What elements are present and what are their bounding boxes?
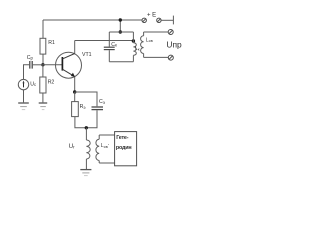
node bottom rail junction — [85, 126, 88, 129]
inductor Lsv2 heterodyne coupling coil — [96, 135, 99, 163]
wire node to R2 — [42, 65, 44, 77]
resistor Re — [72, 102, 79, 117]
wire tank bottom rail — [109, 61, 133, 63]
svg-text:Гете-: Гете- — [116, 135, 129, 141]
svg-text:Cэ: Cэ — [99, 99, 105, 105]
svg-text:Rэ: Rэ — [80, 104, 86, 110]
wire Re to bottom rail — [75, 117, 86, 128]
node base junction — [41, 63, 44, 66]
inductor Ug injection coil — [86, 128, 90, 169]
wire coil bottom to heterodyne box — [99, 162, 114, 164]
wire emitter branch to Ce — [75, 92, 97, 106]
svg-text:Cp: Cp — [27, 55, 34, 61]
capacitor Ck branch — [108, 32, 110, 47]
resistor R2 — [40, 77, 46, 93]
wire secondary bottom to terminal — [144, 56, 169, 58]
wire Ce to bottom rail — [86, 110, 97, 128]
svg-text:Cк: Cк — [111, 42, 117, 48]
wire +E rail — [43, 19, 142, 21]
inductor Lk tank coil — [133, 32, 136, 62]
wire emitter to Re branch — [74, 92, 76, 102]
svg-text:Lсв: Lсв — [146, 37, 153, 43]
svg-text:Lк: Lк — [135, 46, 140, 52]
terminal output top — [168, 30, 173, 35]
wire emitter — [74, 77, 76, 92]
terminal end bar — [172, 16, 174, 25]
wire secondary top to terminal — [144, 31, 169, 33]
svg-text:Uпр: Uпр — [166, 40, 182, 50]
node feed top — [119, 18, 122, 21]
wire coil top to heterodyne box — [99, 134, 114, 136]
wire R1 riser — [42, 20, 44, 38]
svg-text:Uc: Uc — [30, 81, 36, 87]
capacitor Ce — [92, 107, 104, 110]
wire +E feed drop — [119, 20, 121, 32]
wire collector riser — [74, 41, 76, 54]
wire Uc to ground — [23, 90, 25, 103]
terminal output bottom — [168, 55, 173, 60]
svg-text:Uг: Uг — [69, 144, 75, 150]
resistor R1 — [40, 38, 46, 54]
source Uc — [18, 79, 28, 89]
terminal +E right — [157, 18, 161, 22]
svg-text:+ E: + E — [147, 13, 156, 19]
inductor Lsv secondary coil — [141, 32, 144, 57]
node feed tank — [119, 30, 122, 33]
ground under R2 — [39, 103, 48, 110]
transistor VT1 — [56, 52, 82, 78]
wire Cp to base node — [33, 64, 43, 66]
block heterodyne box — [115, 132, 137, 166]
svg-text:родин: родин — [116, 145, 132, 151]
wire +E right stub — [161, 19, 173, 21]
wire R2 to ground — [42, 93, 44, 102]
node collector tap — [132, 39, 135, 42]
svg-text:R1: R1 — [48, 40, 55, 46]
svg-text:R2: R2 — [48, 79, 55, 85]
wire tank top rail — [109, 31, 133, 33]
node emitter junction — [73, 90, 76, 93]
wire Cp branch from source — [24, 65, 30, 80]
ground under Uc — [18, 103, 29, 110]
wire collector to tank — [75, 40, 134, 42]
capacitor Cp — [30, 61, 32, 69]
wire base — [43, 64, 63, 66]
wire R1 to base node — [42, 54, 44, 65]
svg-text:VT1: VT1 — [82, 52, 92, 58]
ground under coil — [80, 170, 91, 176]
terminal +E left — [142, 18, 146, 22]
svg-text:Lсв': Lсв' — [101, 143, 109, 149]
